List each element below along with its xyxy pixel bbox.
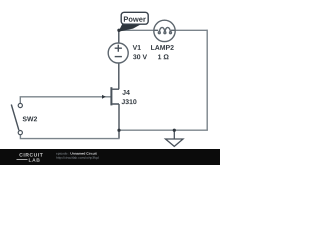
junction dot power node — [117, 29, 120, 32]
lamp LAMP2 — [154, 20, 175, 41]
node Power flag box — [121, 12, 148, 24]
wire right side — [206, 30, 208, 131]
V1 plus minus symbols — [115, 45, 122, 57]
wire bottom right: corner to source junction — [119, 129, 208, 131]
footer text line 1 — [56, 152, 69, 155]
wire top: lamp to top-right corner — [175, 29, 207, 31]
ground — [166, 130, 184, 146]
wire top: power node to lamp — [119, 29, 154, 31]
transistor J4 JFET — [111, 87, 119, 105]
footer bar — [0, 149, 220, 165]
label 1 Ohm — [158, 54, 169, 59]
switch blade — [11, 105, 19, 131]
label J310 — [122, 99, 137, 104]
switch SW2 terminals — [18, 103, 22, 134]
footer logo CIRCUIT — [19, 153, 42, 157]
label J4 — [122, 90, 130, 95]
wire V1 bottom lead to JFET drain — [118, 63, 120, 89]
node Power label — [124, 17, 146, 22]
label LAMP2 — [151, 45, 174, 50]
wire V1 top lead — [118, 30, 120, 43]
label 30 V — [133, 54, 147, 59]
wire JFET source down to bottom-left wire — [118, 104, 120, 139]
footer text line 2 — [56, 156, 98, 159]
label V1 — [133, 45, 141, 50]
junction dot source node — [117, 129, 120, 132]
gate arrow — [102, 95, 106, 99]
node Power flag pointer — [118, 24, 141, 32]
wire bottom left: to switch — [20, 134, 119, 138]
label SW2 — [23, 116, 37, 121]
footer logo LAB — [29, 158, 40, 161]
junction dot ground node — [173, 129, 176, 132]
voltage source V1 — [108, 43, 128, 63]
wire switch top to gate — [20, 97, 110, 104]
